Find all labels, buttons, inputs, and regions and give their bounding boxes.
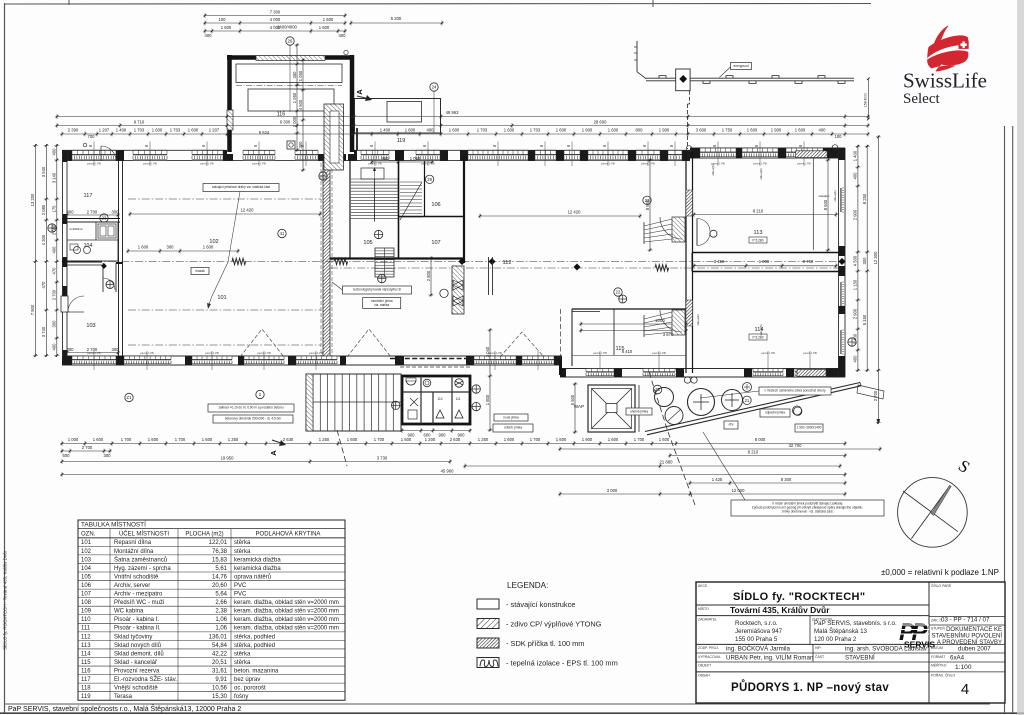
dim chain top t1 (7300) xyxy=(204,10,347,19)
svg-text:1 600: 1 600 xyxy=(203,245,214,250)
dim vertical right x=867 xyxy=(862,145,870,372)
room label 106 xyxy=(431,202,440,208)
svg-text:32 700: 32 700 xyxy=(789,443,802,448)
svg-text:1 000: 1 000 xyxy=(292,116,297,127)
svg-text:1 150: 1 150 xyxy=(853,279,858,290)
svg-text:400: 400 xyxy=(819,128,827,133)
dim mid halls 12420 xyxy=(129,208,838,219)
svg-text:117: 117 xyxy=(84,193,93,199)
svg-text:400: 400 xyxy=(52,148,57,156)
dim vertical right x=878 xyxy=(873,135,881,424)
svg-text:800: 800 xyxy=(636,128,644,133)
svg-text:Select: Select xyxy=(903,91,940,107)
tanks / jimky circles xyxy=(494,377,802,429)
svg-text:pevné 1 PB: pevné 1 PB xyxy=(205,351,219,355)
svg-text:9 710: 9 710 xyxy=(134,120,145,125)
window axis marks bottom wall xyxy=(94,351,810,370)
svg-text:1 400: 1 400 xyxy=(853,150,858,161)
svg-text:stěrka, podhled: stěrka, podhled xyxy=(234,643,275,649)
svg-text:1 600: 1 600 xyxy=(449,128,460,133)
svg-text:- SDK příčka tl. 100 mm: - SDK příčka tl. 100 mm xyxy=(506,639,584,648)
svg-text:1 703: 1 703 xyxy=(477,128,488,133)
svg-text:105: 105 xyxy=(81,574,92,580)
wall: under room 117 xyxy=(62,210,120,223)
svg-text:700: 700 xyxy=(88,134,96,139)
svg-text:1 050: 1 050 xyxy=(298,70,303,81)
svg-text:600: 600 xyxy=(63,453,71,458)
svg-text:2 700: 2 700 xyxy=(82,445,93,450)
svg-text:5 150: 5 150 xyxy=(862,314,867,325)
svg-text:400: 400 xyxy=(853,172,858,180)
room label 115 xyxy=(616,346,625,352)
svg-text:1 400: 1 400 xyxy=(853,333,858,344)
svg-text:1 703: 1 703 xyxy=(134,128,145,133)
svg-text:pevné 1 PB: pevné 1 PB xyxy=(257,351,271,355)
svg-text:3 600: 3 600 xyxy=(696,128,707,133)
terrace 119 xyxy=(355,99,441,145)
section line stub at wall xyxy=(356,128,358,150)
svg-text:21: 21 xyxy=(745,398,750,403)
footer text strip xyxy=(8,704,241,713)
svg-text:1 600: 1 600 xyxy=(152,128,163,133)
svg-text:6 300: 6 300 xyxy=(280,120,291,125)
svg-text:105: 105 xyxy=(363,240,372,246)
svg-text:112: 112 xyxy=(81,634,91,640)
svg-text:400: 400 xyxy=(339,33,347,38)
svg-text:8B: 8B xyxy=(370,145,373,148)
dim small room chains xyxy=(127,44,838,432)
dim 2800 vertical small xyxy=(426,257,434,297)
svg-text:1 250: 1 250 xyxy=(319,437,330,442)
svg-text:pevné 1 PB: pevné 1 PB xyxy=(200,162,214,166)
windows top wall xyxy=(72,150,682,160)
svg-text:SÍDLO fy. "ROCKTECH": SÍDLO fy. "ROCKTECH" xyxy=(733,590,866,603)
svg-text:12 420: 12 420 xyxy=(568,210,581,215)
svg-text:2 080: 2 080 xyxy=(52,224,57,235)
partition stub below 107 xyxy=(489,257,493,295)
svg-text:2 700: 2 700 xyxy=(52,289,57,300)
svg-text:8B: 8B xyxy=(603,145,606,148)
svg-text:103: 103 xyxy=(81,557,92,563)
svg-text:113: 113 xyxy=(754,230,763,236)
wall: room 115 top xyxy=(561,295,688,366)
svg-text:1 703: 1 703 xyxy=(170,128,181,133)
svg-text:109: 109 xyxy=(81,609,92,615)
windows top wall right section xyxy=(700,148,823,158)
svg-text:1:100: 1:100 xyxy=(955,664,972,671)
svg-text:1 250: 1 250 xyxy=(478,437,489,442)
svg-text:119: 119 xyxy=(397,138,406,144)
dim vertical left x=35 xyxy=(30,144,38,357)
svg-text:2 900: 2 900 xyxy=(853,308,858,319)
dim line t4 overall 49963 xyxy=(56,110,870,119)
svg-text:1,06: 1,06 xyxy=(215,617,227,623)
svg-text:pevné 1 PB: pevné 1 PB xyxy=(753,162,767,166)
svg-text:Tovární 435, Králův Dvůr: Tovární 435, Králův Dvůr xyxy=(730,605,830,615)
room 114 area tag xyxy=(749,334,767,340)
wall: top exterior (main building) xyxy=(62,150,690,160)
outside stair 118 xyxy=(306,374,401,431)
dim chain bottom right extras xyxy=(464,450,847,497)
svg-text:Pisoár - kabina II.: Pisoár - kabina II. xyxy=(114,626,161,632)
svg-text:1 700: 1 700 xyxy=(634,437,645,442)
wall: right exterior xyxy=(839,148,846,377)
room label 103 xyxy=(86,323,95,329)
svg-text:1 700: 1 700 xyxy=(374,437,385,442)
svg-text:300: 300 xyxy=(104,453,112,458)
axis marker m0 xyxy=(48,224,56,232)
dim line t5 xyxy=(56,120,870,129)
svg-text:MĚŘÍTKO: MĚŘÍTKO xyxy=(931,663,947,668)
room label 105 xyxy=(363,240,372,246)
svg-text:TABULKA MÍSTNOSTÍ: TABULKA MÍSTNOSTÍ xyxy=(81,520,146,529)
svg-text:45 960: 45 960 xyxy=(441,469,454,474)
svg-text:1 600: 1 600 xyxy=(608,128,619,133)
svg-text:1 600: 1 600 xyxy=(323,17,334,22)
svg-text:03 - PP - 714 / 07: 03 - PP - 714 / 07 xyxy=(941,617,990,624)
axis marker m9 xyxy=(392,401,400,409)
svg-text:114: 114 xyxy=(81,651,91,657)
wall: bottom exterior (left part) xyxy=(62,356,562,365)
svg-text:115: 115 xyxy=(81,660,91,666)
section mark A (top) xyxy=(355,89,372,101)
svg-text:PaP SERVIS, stavebnís. s r.o: PaP SERVIS, stavebnís. s r.o. xyxy=(814,620,897,627)
dim under room 103 xyxy=(66,347,120,355)
svg-text:energovod: energovod xyxy=(733,64,748,68)
svg-text:pevné 1 PB: pevné 1 PB xyxy=(87,162,101,166)
svg-text:400: 400 xyxy=(52,343,57,351)
svg-text:155 00 Praha 5: 155 00 Praha 5 xyxy=(735,636,778,643)
axis line A (crane rail upper) xyxy=(128,198,321,200)
svg-text:4 000: 4 000 xyxy=(270,17,281,22)
svg-text:fošny: fošny xyxy=(234,694,248,700)
svg-text:El.-rozvodna SŽE- stáv.: El.-rozvodna SŽE- stáv. xyxy=(114,675,177,683)
svg-text:900: 900 xyxy=(439,433,447,438)
WAP platform xyxy=(570,383,662,434)
svg-text:Rocktech, s.r.o.: Rocktech, s.r.o. xyxy=(735,620,778,627)
svg-text:8B: 8B xyxy=(643,145,646,148)
svg-text:116: 116 xyxy=(81,668,91,674)
svg-text:PVC: PVC xyxy=(234,592,247,598)
svg-text:1,06: 1,06 xyxy=(215,626,227,632)
axis marker m3 xyxy=(100,214,108,222)
wall: left exterior xyxy=(63,150,68,365)
svg-text:ZADAVATEL: ZADAVATEL xyxy=(698,618,717,622)
svg-text:8 210: 8 210 xyxy=(753,209,764,214)
lower stair flight below 105 xyxy=(375,248,394,277)
svg-text:14,76: 14,76 xyxy=(212,574,228,580)
svg-text:1 400: 1 400 xyxy=(116,128,127,133)
svg-text:Malá Štěpánská 13: Malá Štěpánská 13 xyxy=(814,628,868,635)
svg-text:m=2000mm: m=2000mm xyxy=(69,227,83,231)
door left wall xyxy=(61,296,84,312)
axis marker m1 xyxy=(319,172,327,180)
axis marker m16 xyxy=(614,288,622,296)
svg-text:odpadní jímka: odpadní jímka xyxy=(765,410,785,414)
svg-text:1 600: 1 600 xyxy=(138,245,149,250)
room 113 interior extras xyxy=(686,145,838,377)
svg-text:2 390: 2 390 xyxy=(68,128,79,133)
room table TABULKA MISTNOSTI xyxy=(78,520,345,701)
energovod right dim xyxy=(864,77,870,120)
svg-text:STUPEŇ: STUPEŇ xyxy=(931,627,945,631)
wall: mid vertical hatched wall (between hall and rooms 105-107) xyxy=(321,161,332,360)
svg-text:8 600: 8 600 xyxy=(823,199,828,210)
svg-text:keram. dlažba, obklad stěn v=2: keram. dlažba, obklad stěn v=2000 mm xyxy=(234,609,339,615)
dim chain bottom b1 xyxy=(61,437,847,446)
svg-text:4 500: 4 500 xyxy=(853,255,858,266)
svg-text:Vnější schodiště: Vnější schodiště xyxy=(114,686,158,692)
svg-text:8 300: 8 300 xyxy=(781,477,792,482)
svg-text:4 000: 4 000 xyxy=(270,25,281,30)
axis marker m10 xyxy=(472,385,480,393)
svg-text:9,91: 9,91 xyxy=(215,677,227,683)
note box montazni jimka xyxy=(363,298,401,309)
svg-text:stěrka: stěrka xyxy=(234,660,251,666)
svg-text:3 450: 3 450 xyxy=(714,259,725,264)
axis marker m12 xyxy=(125,393,133,401)
svg-text:DOKUMENTACE KE: DOKUMENTACE KE xyxy=(946,627,1002,633)
svg-text:stávající jeřábové dráhy via.: stávající jeřábové dráhy via. statická č… xyxy=(212,185,270,189)
svg-text:1 400: 1 400 xyxy=(380,128,391,133)
svg-text:pevné 1 PB: pevné 1 PB xyxy=(652,351,666,355)
svg-text:117: 117 xyxy=(81,677,91,683)
svg-text:v místech oslněného zdiva pone: v místech oslněného zdiva ponechat otvor… xyxy=(764,388,826,392)
svg-text:WAP: WAP xyxy=(574,404,584,409)
svg-text:1 200: 1 200 xyxy=(425,437,436,442)
windows bottom wall right part xyxy=(586,369,826,378)
floor box symbol xyxy=(287,141,295,149)
door ramp lower (112 to 114) xyxy=(644,310,685,337)
svg-text:101: 101 xyxy=(81,540,92,546)
skylight dashed triangles xyxy=(240,329,544,357)
axis marker m6 xyxy=(374,230,382,238)
dim chain top t2 xyxy=(204,16,444,30)
svg-text:OZN.: OZN. xyxy=(81,531,96,537)
svg-text:1 600: 1 600 xyxy=(405,128,416,133)
note box jerabove drahy xyxy=(203,184,360,371)
axis marker m7 xyxy=(378,274,386,282)
svg-text:POŘAD. ČÍSLO: POŘAD. ČÍSLO xyxy=(931,673,955,678)
compass north arrow xyxy=(898,456,974,547)
svg-text:1 600: 1 600 xyxy=(347,437,358,442)
svg-text:3 740: 3 740 xyxy=(41,326,46,337)
svg-text:9 760: 9 760 xyxy=(803,259,814,264)
dim chain bottom b2 xyxy=(61,443,882,458)
svg-text:8B: 8B xyxy=(799,145,802,148)
level note xyxy=(881,568,999,577)
svg-text:900: 900 xyxy=(458,433,466,438)
dim chain bottom b4 overall xyxy=(61,469,847,478)
svg-text:2 700: 2 700 xyxy=(873,390,878,401)
left margin vertical text xyxy=(2,550,8,650)
svg-text:- stávající konstrukce: - stávající konstrukce xyxy=(506,600,575,609)
window axis marks top wall xyxy=(89,142,804,167)
svg-text:22: 22 xyxy=(616,290,621,295)
axis marker m5 xyxy=(425,175,433,183)
svg-text:29: 29 xyxy=(427,177,432,182)
svg-text:1 600: 1 600 xyxy=(93,437,104,442)
svg-text:1 600: 1 600 xyxy=(795,128,806,133)
svg-text:12 300: 12 300 xyxy=(873,251,878,264)
svg-text:ČÁST: ČÁST xyxy=(815,654,824,659)
svg-text:15,83: 15,83 xyxy=(212,557,228,563)
svg-text:1 900: 1 900 xyxy=(771,128,782,133)
svg-text:pevné 1 PB: pevné 1 PB xyxy=(593,351,607,355)
svg-text:300: 300 xyxy=(112,347,120,352)
svg-text:2 700: 2 700 xyxy=(87,210,98,215)
svg-text:keram. dlažba, obklad stěn v=2: keram. dlažba, obklad stěn v=2000 mm xyxy=(234,617,339,623)
svg-text:112: 112 xyxy=(503,260,512,266)
svg-text:- tepelná izolace - EPS tl. 10: - tepelná izolace - EPS tl. 100 mm xyxy=(506,659,618,668)
section mark A (bottom) xyxy=(269,440,286,456)
svg-text:Archiv - mezipatro: Archiv - mezipatro xyxy=(114,592,163,598)
svg-text:107: 107 xyxy=(81,592,92,598)
axis marker m8 xyxy=(440,289,448,297)
svg-text:102: 102 xyxy=(81,549,92,555)
svg-text:pevné 1 PB: pevné 1 PB xyxy=(488,351,502,355)
svg-text:Šatna zaměstnanců: Šatna zaměstnanců xyxy=(114,556,167,563)
svg-text:1 750: 1 750 xyxy=(722,128,733,133)
WC annex rooms 108-111 xyxy=(402,376,470,424)
svg-text:175: 175 xyxy=(52,205,57,213)
svg-text:AKCE: AKCE xyxy=(698,584,708,588)
svg-text:pevné 1 PB: pevné 1 PB xyxy=(252,162,266,166)
svg-text:3 730: 3 730 xyxy=(377,456,388,461)
svg-text:1 000: 1 000 xyxy=(759,259,770,264)
svg-text:technologický kanál nársoty/ře: technologický kanál nársoty/řez B xyxy=(353,287,400,291)
svg-text:12 420: 12 420 xyxy=(241,208,254,213)
svg-text:pevné 1 PB: pevné 1 PB xyxy=(601,162,615,166)
svg-text:3 540: 3 540 xyxy=(41,166,46,177)
room 113 area tag xyxy=(749,237,767,243)
room label 113 xyxy=(754,230,763,236)
svg-text:8 250: 8 250 xyxy=(862,193,867,204)
dim chain t6 dense xyxy=(61,128,870,140)
svg-text:400: 400 xyxy=(853,355,858,363)
wall: vertical between room 112 and 113/114 xyxy=(686,152,693,373)
note box 1900/1600/1400 xyxy=(795,424,823,432)
svg-text:OBJEKT: OBJEKT xyxy=(698,664,711,668)
svg-text:900: 900 xyxy=(408,433,416,438)
svg-text:PŮDORYS 1. NP –nový stav: PŮDORYS 1. NP –nový stav xyxy=(731,680,889,694)
svg-text:120 00 Praha 2: 120 00 Praha 2 xyxy=(814,636,857,643)
svg-text:keramická dlažba: keramická dlažba xyxy=(234,566,281,572)
wall: left rooms partition x=120 xyxy=(119,154,123,360)
svg-text:1 425: 1 425 xyxy=(712,477,723,482)
svg-text:7 300: 7 300 xyxy=(270,10,281,15)
svg-text:76,38: 76,38 xyxy=(212,549,228,555)
svg-text:2,38: 2,38 xyxy=(215,609,227,615)
svg-text:26: 26 xyxy=(288,39,293,44)
svg-text:400: 400 xyxy=(67,210,75,215)
svg-text:Hyg. zázemí - sprcha: Hyg. zázemí - sprcha xyxy=(114,566,171,572)
svg-text:54,84: 54,84 xyxy=(212,643,228,649)
svg-text:110: 110 xyxy=(81,617,91,623)
svg-text:8B: 8B xyxy=(493,145,496,148)
svg-text:ing. BOČKOVÁ Jarmila: ing. BOČKOVÁ Jarmila xyxy=(726,646,791,653)
note box v mistech xyxy=(700,387,831,398)
svg-text:122,01: 122,01 xyxy=(209,540,228,546)
svg-text:ÚČEL MÍSTNOSTI: ÚČEL MÍSTNOSTI xyxy=(119,530,169,537)
svg-text:WC kabina: WC kabina xyxy=(114,609,144,615)
svg-text:15,30: 15,30 xyxy=(212,694,228,700)
svg-text:8B: 8B xyxy=(567,145,570,148)
svg-text:URBAN Petr, ing. VILÍM Roman: URBAN Petr, ing. VILÍM Roman xyxy=(726,655,814,662)
dim vertical left x=57 xyxy=(52,144,60,357)
svg-text:1 800: 1 800 xyxy=(485,394,490,405)
svg-text:106: 106 xyxy=(431,202,440,208)
svg-text:28 600: 28 600 xyxy=(594,120,607,125)
svg-text:5,61: 5,61 xyxy=(215,566,227,572)
svg-text:111: 111 xyxy=(81,626,91,632)
legend LEGENDA xyxy=(477,581,618,668)
svg-text:115: 115 xyxy=(616,346,625,352)
room label 102 xyxy=(209,239,218,245)
dim vertical right x=858 xyxy=(853,145,861,372)
rotated wall labels xyxy=(696,164,837,335)
svg-text:5 200: 5 200 xyxy=(391,16,402,21)
axis marker m14 xyxy=(743,396,751,404)
svg-text:9 624: 9 624 xyxy=(259,130,270,135)
svg-text:1 050: 1 050 xyxy=(410,156,421,161)
svg-text:OBSAH: OBSAH xyxy=(698,674,710,678)
axis marker m13 xyxy=(256,390,264,398)
svg-text:470: 470 xyxy=(41,281,46,289)
svg-text:pevné 1 PB: pevné 1 PB xyxy=(143,162,157,166)
svg-text:STAVEBNÍ: STAVEBNÍ xyxy=(845,655,875,662)
svg-text:1 700: 1 700 xyxy=(530,437,541,442)
svg-text:1 900: 1 900 xyxy=(582,128,593,133)
svg-text:Sklad - kancelář: Sklad - kancelář xyxy=(114,660,158,666)
insulation zigzag symbols xyxy=(232,258,669,271)
svg-text:31,61: 31,61 xyxy=(212,668,228,674)
svg-text:1 600: 1 600 xyxy=(659,437,670,442)
svg-text:119: 119 xyxy=(81,694,91,700)
wall: bottom exterior (right part) xyxy=(560,360,845,377)
svg-text:2 800: 2 800 xyxy=(426,270,431,281)
axis marker 24 above terrace xyxy=(430,83,438,133)
room 116 block (top protrusion) xyxy=(227,50,354,154)
svg-text:-OV-: -OV- xyxy=(728,422,735,426)
svg-text:Pisoár - kabina I.: Pisoár - kabina I. xyxy=(114,617,159,623)
svg-text:oprava nátěrů: oprava nátěrů xyxy=(234,573,271,580)
svg-text:3 040: 3 040 xyxy=(485,346,490,357)
svg-text:Sklad demont. dílů: Sklad demont. dílů xyxy=(114,650,164,657)
svg-text:1 700: 1 700 xyxy=(175,437,186,442)
svg-text:pevné 1 PB: pevné 1 PB xyxy=(761,351,775,355)
svg-text:20,51: 20,51 xyxy=(212,660,228,666)
door arc top-left entrance xyxy=(83,143,116,161)
svg-text:ČÍSLO PARÉ: ČÍSLO PARÉ xyxy=(931,583,952,588)
svg-text:1 207: 1 207 xyxy=(99,128,110,133)
axis marker m2 xyxy=(278,229,286,237)
svg-text:42,22: 42,22 xyxy=(212,651,228,657)
dim annex below xyxy=(401,428,472,438)
duct channel at 116/hall junction xyxy=(324,104,344,170)
svg-text:STAVEBNÍMU POVOLENÍ: STAVEBNÍMU POVOLENÍ xyxy=(932,633,1003,640)
svg-text:stáv-a(b): stáv-a(b) xyxy=(833,190,837,201)
svg-text:1 207: 1 207 xyxy=(209,128,220,133)
svg-text:100: 100 xyxy=(835,134,843,139)
svg-text:21 880: 21 880 xyxy=(660,460,673,465)
svg-text:104: 104 xyxy=(81,566,92,572)
svg-text:HIP:: HIP: xyxy=(815,646,822,650)
svg-text:pevné 1 PB: pevné 1 PB xyxy=(641,162,655,166)
svg-text:107: 107 xyxy=(431,240,440,246)
svg-text:4 300: 4 300 xyxy=(41,234,46,245)
svg-text:pevné 1 PB: pevné 1 PB xyxy=(140,351,154,355)
